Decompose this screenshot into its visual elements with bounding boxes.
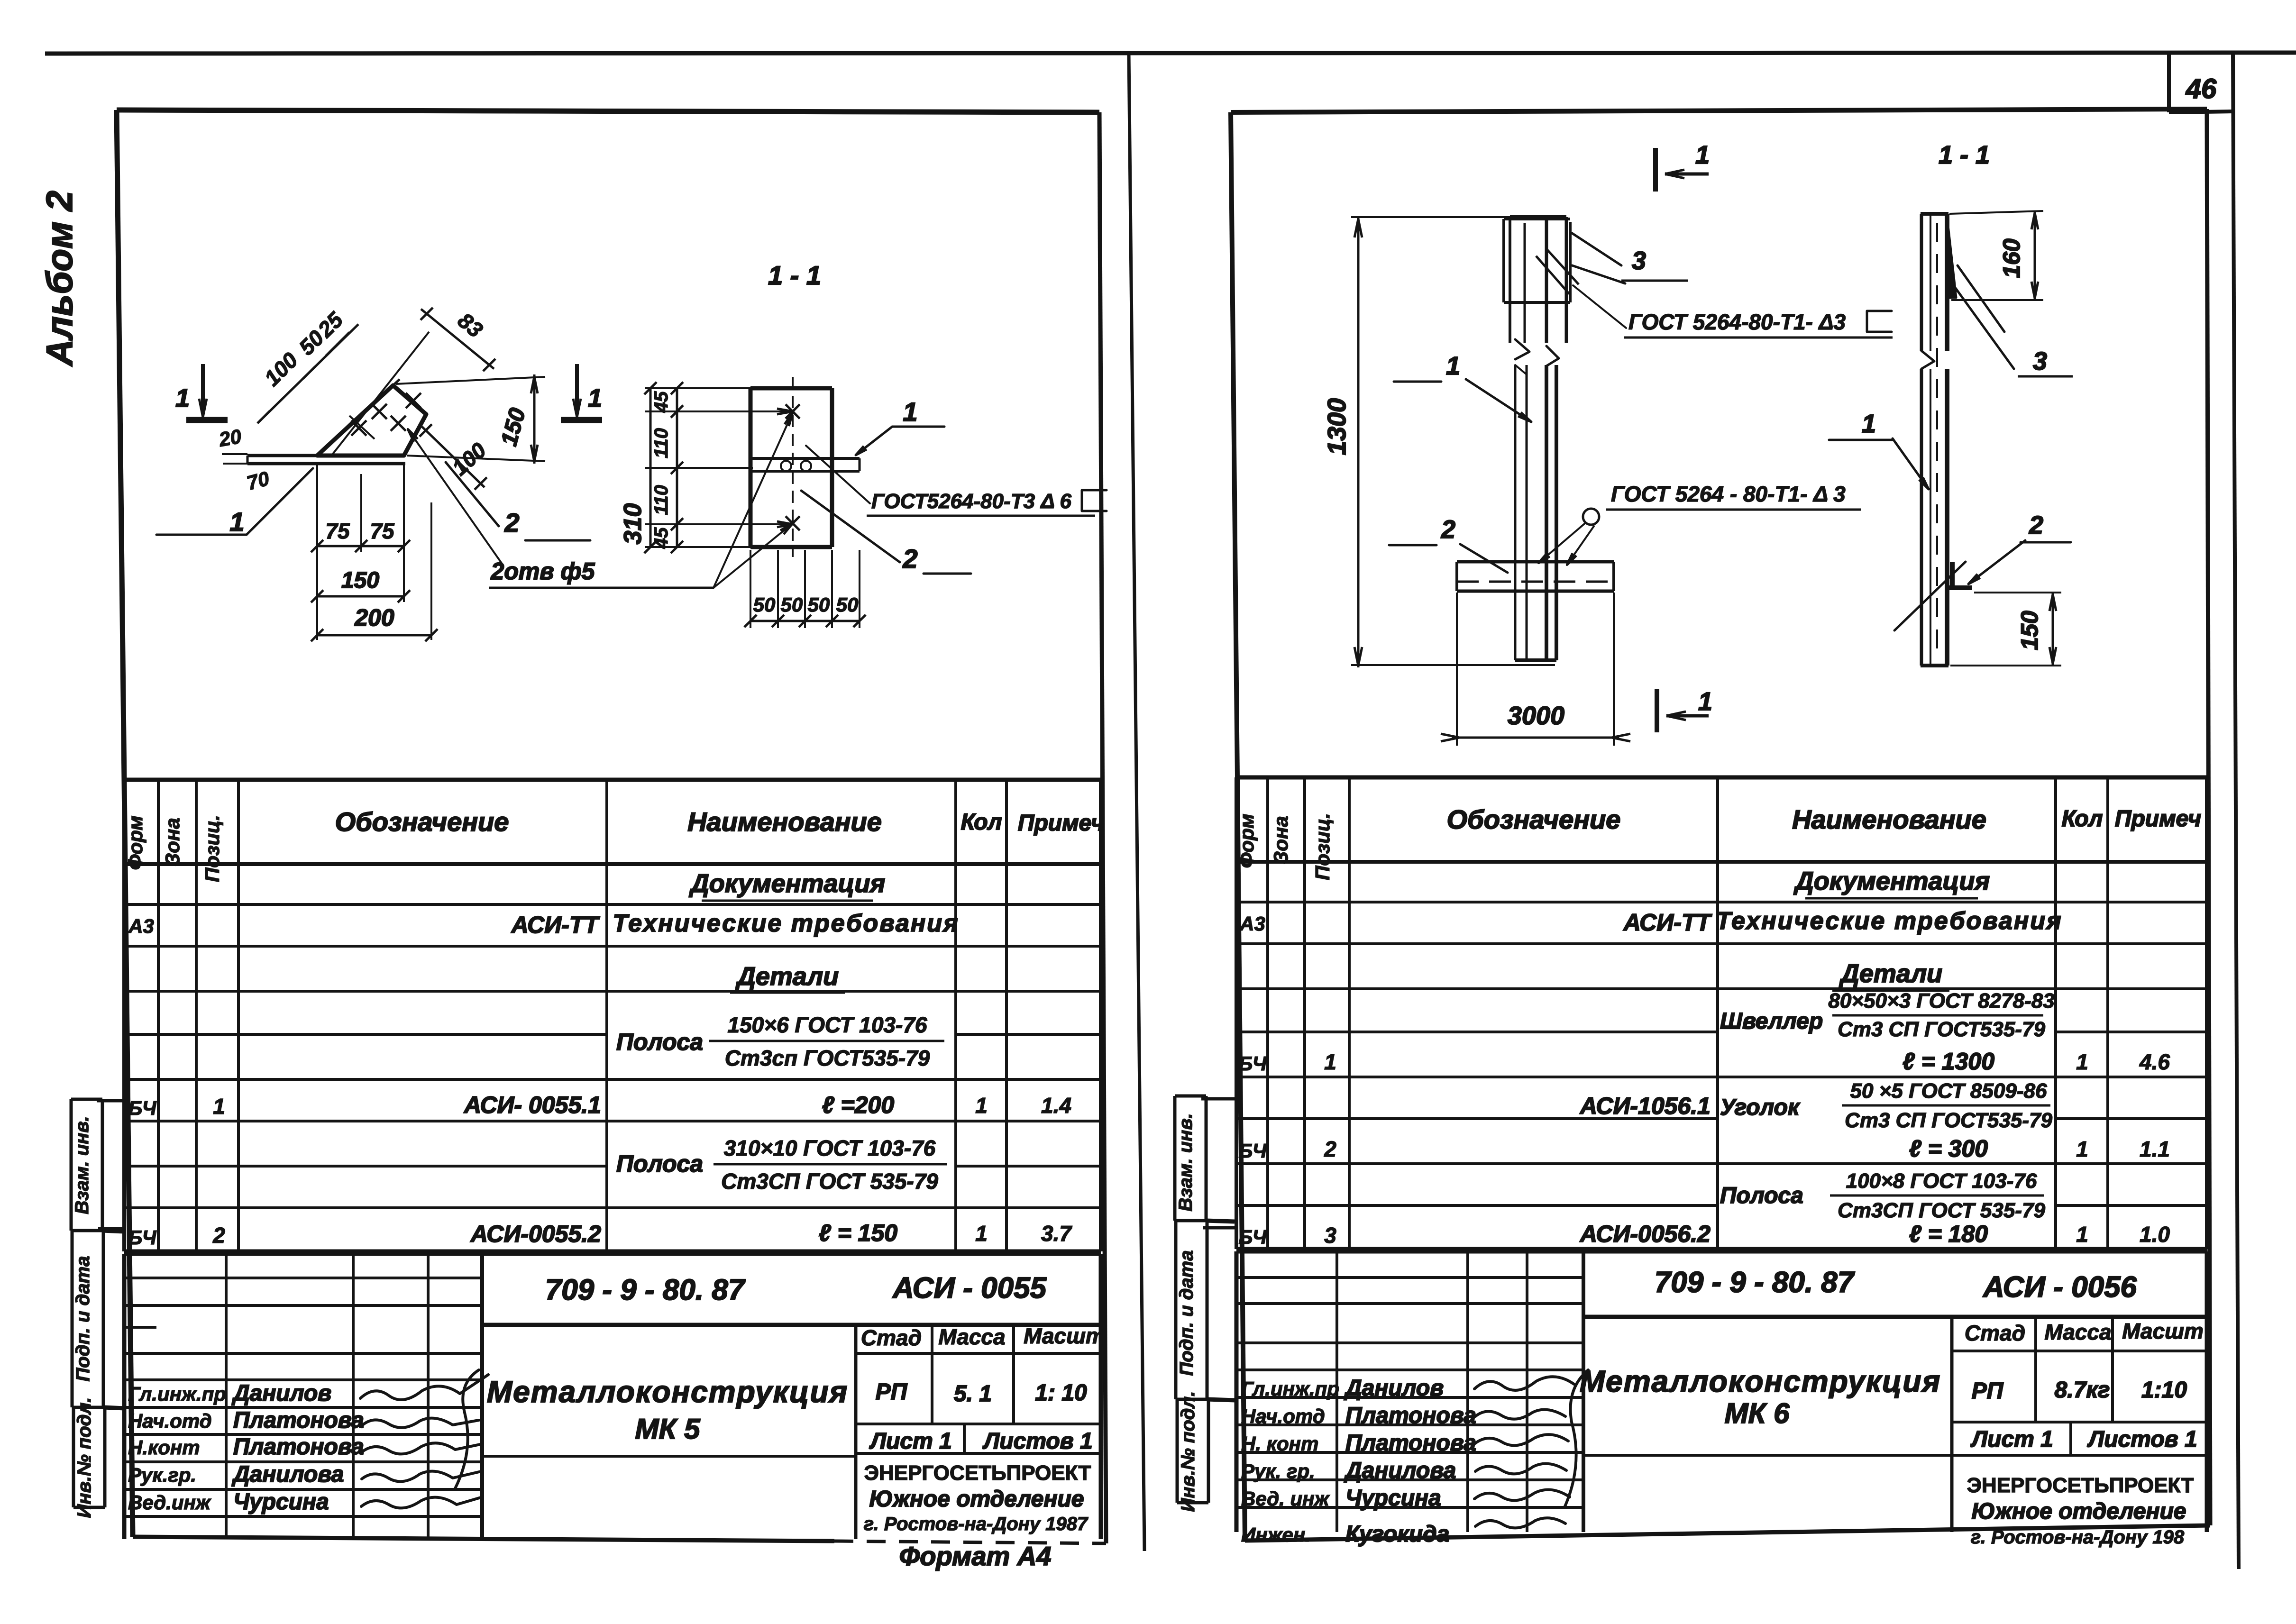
- svg-text:1: 1: [175, 384, 190, 412]
- svg-text:Ст3 СП ГОСТ535-79: Ст3 СП ГОСТ535-79: [1845, 1109, 2052, 1132]
- svg-text:АСИ - 0056: АСИ - 0056: [1982, 1271, 2137, 1304]
- svg-text:БЧ: БЧ: [1239, 1226, 1267, 1248]
- svg-text:1.0: 1.0: [2140, 1222, 2170, 1247]
- svg-text:ℓ = 150: ℓ = 150: [819, 1220, 897, 1246]
- svg-text:1: 10: 1: 10: [1035, 1380, 1087, 1405]
- svg-text:Рук. гр.: Рук. гр.: [1241, 1460, 1315, 1482]
- svg-text:Ст3 СП ГОСТ535-79: Ст3 СП ГОСТ535-79: [1838, 1018, 2045, 1041]
- svg-text:ЭНЕРГОСЕТЬПРОЕКТ: ЭНЕРГОСЕТЬПРОЕКТ: [1967, 1474, 2194, 1497]
- svg-text:Подп. и дата: Подп. и дата: [1176, 1250, 1197, 1376]
- svg-text:Ст3СП ГОСТ 535-79: Ст3СП ГОСТ 535-79: [721, 1169, 938, 1194]
- svg-text:Примеч: Примеч: [1018, 811, 1104, 836]
- svg-text:1: 1: [2076, 1222, 2088, 1247]
- svg-text:Масшт: Масшт: [1024, 1323, 1105, 1348]
- svg-text:Данилов: Данилов: [231, 1381, 331, 1406]
- svg-text:3: 3: [2033, 347, 2047, 375]
- svg-text:3000: 3000: [1508, 702, 1564, 730]
- svg-text:1 - 1: 1 - 1: [768, 260, 821, 290]
- svg-text:Платонова: Платонова: [1345, 1431, 1476, 1456]
- svg-text:46: 46: [2186, 73, 2217, 104]
- svg-text:МК 5: МК 5: [635, 1413, 701, 1445]
- svg-text:БЧ: БЧ: [1239, 1140, 1267, 1162]
- svg-text:Платонова: Платонова: [1345, 1403, 1476, 1428]
- svg-text:2отв ф5: 2отв ф5: [491, 558, 595, 584]
- svg-text:1: 1: [975, 1093, 988, 1118]
- svg-text:Зона: Зона: [161, 818, 183, 866]
- svg-text:150×6 ГОСТ 103-76: 150×6 ГОСТ 103-76: [728, 1013, 927, 1037]
- svg-text:Листов 1: Листов 1: [982, 1429, 1092, 1454]
- svg-text:Подп. и дата: Подп. и дата: [73, 1256, 93, 1382]
- svg-text:Данилов: Данилов: [1344, 1376, 1444, 1401]
- svg-text:МК 6: МК 6: [1725, 1397, 1790, 1429]
- svg-text:Полоса: Полоса: [1720, 1183, 1803, 1208]
- svg-text:Нач.отд: Нач.отд: [128, 1410, 212, 1432]
- svg-text:Технические требования: Технические требования: [613, 910, 959, 937]
- svg-text:РП: РП: [1972, 1378, 2004, 1404]
- svg-text:Позиц.: Позиц.: [201, 815, 223, 882]
- svg-text:Гл.инж.пр: Гл.инж.пр: [1241, 1378, 1339, 1400]
- svg-text:Данилова: Данилова: [231, 1462, 344, 1487]
- svg-text:1: 1: [903, 397, 917, 427]
- svg-text:1: 1: [229, 507, 244, 537]
- svg-text:Ст3сп ГОСТ535-79: Ст3сп ГОСТ535-79: [725, 1046, 930, 1070]
- svg-text:Стад: Стад: [1965, 1321, 2025, 1345]
- svg-text:8.7кг: 8.7кг: [2055, 1378, 2110, 1403]
- svg-text:150: 150: [341, 568, 379, 593]
- svg-text:1300: 1300: [1323, 398, 1351, 455]
- svg-text:80×50×3 ГОСТ 8278-83: 80×50×3 ГОСТ 8278-83: [1828, 989, 2054, 1013]
- svg-text:Формат А4: Формат А4: [899, 1541, 1052, 1571]
- svg-text:Технические требования: Технические требования: [1716, 907, 2062, 935]
- svg-text:А3: А3: [128, 915, 154, 937]
- svg-text:ℓ = 1300: ℓ = 1300: [1903, 1048, 1994, 1075]
- svg-text:г. Ростов-на-Дону 198: г. Ростов-на-Дону 198: [1971, 1527, 2185, 1548]
- svg-text:Обозначение: Обозначение: [335, 807, 509, 837]
- svg-text:310: 310: [619, 503, 647, 545]
- svg-text:Гл.инж.пр: Гл.инж.пр: [128, 1383, 226, 1405]
- svg-text:50 ×5 ГОСТ 8509-86: 50 ×5 ГОСТ 8509-86: [1850, 1079, 2047, 1103]
- svg-text:Взам. инв.: Взам. инв.: [1175, 1113, 1196, 1211]
- svg-text:1: 1: [1446, 352, 1460, 380]
- svg-text:АСИ - 0055: АСИ - 0055: [892, 1272, 1047, 1305]
- svg-text:А3: А3: [1239, 912, 1265, 935]
- svg-text:Данилова: Данилова: [1344, 1458, 1456, 1483]
- svg-text:БЧ: БЧ: [128, 1097, 157, 1119]
- svg-text:Стад: Стад: [861, 1325, 922, 1350]
- svg-text:Взам. инв.: Взам. инв.: [72, 1116, 92, 1214]
- svg-text:Кугокида: Кугокида: [1345, 1522, 1449, 1547]
- svg-text:1:10: 1:10: [2141, 1378, 2187, 1403]
- svg-text:Кол: Кол: [961, 810, 1002, 835]
- svg-text:45: 45: [651, 391, 672, 413]
- svg-text:2: 2: [212, 1223, 225, 1248]
- svg-text:709 - 9 - 80. 87: 709 - 9 - 80. 87: [1655, 1266, 1855, 1299]
- svg-text:50: 50: [753, 593, 776, 616]
- svg-text:АСИ-1056.1: АСИ-1056.1: [1579, 1093, 1711, 1119]
- svg-text:Лист 1: Лист 1: [869, 1429, 952, 1454]
- svg-text:1: 1: [213, 1094, 225, 1119]
- svg-text:1: 1: [1695, 141, 1710, 169]
- svg-text:100×8 ГОСТ 103-76: 100×8 ГОСТ 103-76: [1846, 1169, 2037, 1193]
- svg-text:3: 3: [1632, 246, 1646, 275]
- svg-text:АСИ-ТТ: АСИ-ТТ: [511, 912, 601, 938]
- svg-text:4.6: 4.6: [2139, 1049, 2170, 1074]
- svg-text:110: 110: [651, 428, 672, 458]
- svg-text:Масса: Масса: [938, 1324, 1005, 1349]
- svg-text:Южное отделение: Южное отделение: [869, 1487, 1084, 1512]
- svg-text:БЧ: БЧ: [1239, 1052, 1267, 1075]
- svg-text:Наименование: Наименование: [1792, 804, 1986, 834]
- svg-text:ℓ = 300: ℓ = 300: [1909, 1135, 1988, 1162]
- svg-text:310×10 ГОСТ 103-76: 310×10 ГОСТ 103-76: [724, 1136, 936, 1160]
- svg-text:1: 1: [975, 1221, 988, 1246]
- svg-text:1: 1: [588, 384, 602, 412]
- svg-text:Нач.отд: Нач.отд: [1241, 1405, 1325, 1427]
- svg-text:Листов 1: Листов 1: [2087, 1427, 2197, 1452]
- svg-text:Форм: Форм: [124, 816, 146, 870]
- svg-text:Детали: Детали: [735, 962, 839, 991]
- svg-text:Позиц.: Позиц.: [1311, 813, 1334, 880]
- svg-text:Документация: Документация: [689, 869, 885, 898]
- svg-text:1: 1: [1324, 1049, 1336, 1074]
- svg-text:ℓ = 180: ℓ = 180: [1909, 1221, 1988, 1247]
- svg-text:2: 2: [902, 544, 917, 574]
- svg-text:Примеч: Примеч: [2115, 806, 2201, 831]
- svg-text:50: 50: [836, 593, 859, 616]
- svg-text:3: 3: [1324, 1223, 1336, 1248]
- svg-text:Инжен.: Инжен.: [1241, 1524, 1311, 1546]
- svg-text:Инв.№ подл.: Инв.№ подл.: [1178, 1391, 1198, 1512]
- svg-text:Н. конт: Н. конт: [1241, 1432, 1318, 1455]
- svg-text:Платонова: Платонова: [233, 1434, 364, 1460]
- svg-text:Ст3СП ГОСТ 535-79: Ст3СП ГОСТ 535-79: [1838, 1199, 2045, 1222]
- svg-text:Рук.гр.: Рук.гр.: [128, 1464, 196, 1486]
- svg-text:БЧ: БЧ: [128, 1226, 157, 1249]
- svg-text:АСИ-0056.2: АСИ-0056.2: [1579, 1221, 1711, 1247]
- svg-text:160: 160: [1998, 238, 2025, 278]
- svg-text:АСИ- 0055.1: АСИ- 0055.1: [463, 1092, 601, 1118]
- svg-text:г. Ростов-на-Дону 1987: г. Ростов-на-Дону 1987: [864, 1514, 1089, 1534]
- svg-text:Чурсина: Чурсина: [1345, 1486, 1441, 1511]
- svg-text:20: 20: [217, 425, 243, 451]
- svg-text:5. 1: 5. 1: [954, 1381, 992, 1406]
- svg-text:150: 150: [2016, 611, 2043, 650]
- svg-text:Кол: Кол: [2062, 806, 2103, 831]
- svg-text:Масса: Масса: [2044, 1320, 2111, 1344]
- svg-text:Форм: Форм: [1235, 814, 1258, 868]
- svg-text:АСИ-0055.2: АСИ-0055.2: [470, 1221, 601, 1247]
- svg-text:110: 110: [651, 485, 672, 515]
- svg-text:Чурсина: Чурсина: [233, 1489, 329, 1515]
- svg-text:Обозначение: Обозначение: [1447, 804, 1621, 834]
- svg-text:2: 2: [1324, 1137, 1336, 1161]
- svg-text:ℓ =200: ℓ =200: [822, 1092, 895, 1118]
- svg-text:Наименование: Наименование: [687, 807, 882, 837]
- svg-text:Документация: Документация: [1793, 867, 1990, 895]
- svg-text:Южное отделение: Южное отделение: [1972, 1499, 2186, 1524]
- svg-text:75: 75: [370, 519, 395, 543]
- svg-text:200: 200: [354, 604, 394, 631]
- svg-text:2: 2: [504, 508, 519, 538]
- svg-text:Вед.инж: Вед.инж: [128, 1491, 211, 1514]
- svg-text:1.1: 1.1: [2140, 1137, 2170, 1161]
- svg-text:Масшт: Масшт: [2122, 1319, 2204, 1343]
- svg-text:Металлоконструкция: Металлоконструкция: [487, 1375, 848, 1409]
- svg-text:РП: РП: [876, 1379, 908, 1405]
- svg-text:1.4: 1.4: [1041, 1093, 1071, 1118]
- svg-text:2: 2: [1441, 515, 1455, 544]
- svg-text:Вед. инж: Вед. инж: [1241, 1487, 1330, 1510]
- svg-text:Инв.№ подл.: Инв.№ подл.: [74, 1397, 95, 1518]
- svg-text:1: 1: [1698, 687, 1712, 716]
- svg-text:Н.конт: Н.конт: [128, 1436, 200, 1459]
- svg-text:АСИ-ТТ: АСИ-ТТ: [1623, 909, 1713, 936]
- svg-text:Швеллер: Швеллер: [1720, 1009, 1823, 1034]
- svg-text:ГОСТ 5264 - 80-Т1- Δ 3: ГОСТ 5264 - 80-Т1- Δ 3: [1611, 482, 1846, 506]
- svg-text:Альбом 2: Альбом 2: [38, 191, 80, 367]
- svg-text:2: 2: [2029, 511, 2043, 539]
- svg-text:ЭНЕРГОСЕТЬПРОЕКТ: ЭНЕРГОСЕТЬПРОЕКТ: [864, 1461, 1091, 1485]
- svg-text:Уголок: Уголок: [1720, 1095, 1801, 1120]
- svg-text:Лист 1: Лист 1: [1970, 1427, 2053, 1452]
- svg-text:75: 75: [325, 519, 350, 543]
- svg-text:ГОСТ 5264-80-Т1- Δ3: ГОСТ 5264-80-Т1- Δ3: [1628, 310, 1846, 334]
- svg-text:Зона: Зона: [1270, 816, 1292, 864]
- svg-text:50: 50: [808, 593, 830, 616]
- svg-text:1: 1: [2076, 1137, 2088, 1161]
- svg-text:709 - 9 - 80. 87: 709 - 9 - 80. 87: [545, 1274, 746, 1306]
- svg-text:50: 50: [781, 593, 803, 616]
- svg-text:1: 1: [1862, 410, 1876, 438]
- svg-text:1: 1: [2076, 1049, 2088, 1074]
- svg-text:Платонова: Платонова: [233, 1408, 364, 1433]
- svg-text:Полоса: Полоса: [616, 1150, 703, 1177]
- svg-text:Детали: Детали: [1839, 959, 1942, 988]
- svg-text:Полоса: Полоса: [616, 1029, 703, 1055]
- svg-text:1 - 1: 1 - 1: [1939, 141, 1990, 169]
- svg-text:3.7: 3.7: [1041, 1221, 1072, 1246]
- svg-text:45: 45: [651, 527, 672, 549]
- svg-text:ГОСТ5264-80-Т3 Δ 6: ГОСТ5264-80-Т3 Δ 6: [871, 490, 1071, 513]
- svg-text:Металлоконструкция: Металлоконструкция: [1580, 1364, 1941, 1398]
